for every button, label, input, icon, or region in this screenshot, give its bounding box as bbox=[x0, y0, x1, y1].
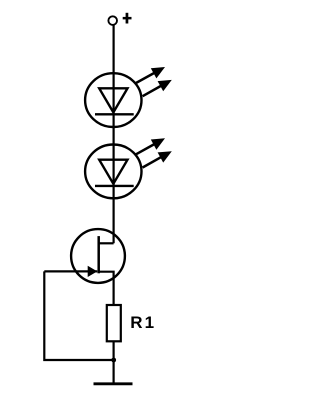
junction dot node S bbox=[111, 358, 116, 363]
resistor R1 bbox=[107, 305, 121, 341]
transistor Q1 source jog wire bbox=[99, 272, 114, 305]
LED D1 bbox=[85, 73, 141, 127]
feedback wire gate to source junction bbox=[44, 271, 113, 360]
LED D1 emission arrow upper bbox=[136, 67, 165, 83]
LED D2 emission arrow upper bbox=[136, 138, 165, 154]
transistor Q1 gate wire with arrowhead bbox=[44, 266, 97, 277]
transistor Q1 channel bar bbox=[97, 236, 100, 273]
terminal + (positive supply pin) bbox=[108, 16, 117, 25]
transistor Q1 drain jog wire bbox=[99, 242, 114, 244]
LED D2 bbox=[85, 145, 141, 199]
wire from + terminal through D1 and D2 to Q1 drain bbox=[112, 25, 114, 243]
label R1 bbox=[130, 313, 156, 332]
ground bbox=[94, 382, 133, 385]
LED D1 emission arrow lower bbox=[143, 80, 172, 96]
svg-text:R1: R1 bbox=[130, 313, 156, 332]
transistor Q1 (N-JFET) body circle bbox=[71, 229, 125, 283]
label + bbox=[123, 13, 132, 24]
wire resistor bottom to ground bbox=[112, 341, 114, 384]
LED D2 emission arrow lower bbox=[143, 151, 172, 167]
